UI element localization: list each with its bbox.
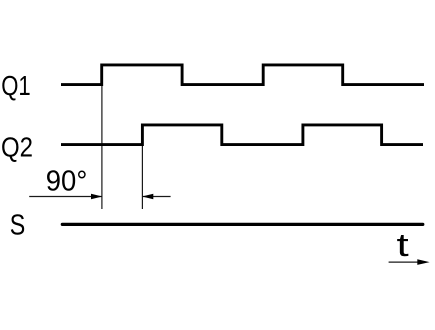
svg-text:Q2: Q2: [1, 131, 33, 162]
svg-text:S: S: [10, 210, 25, 242]
svg-text:Q1: Q1: [1, 70, 31, 101]
svg-text:t: t: [397, 227, 409, 263]
svg-text:90°: 90°: [46, 165, 88, 197]
